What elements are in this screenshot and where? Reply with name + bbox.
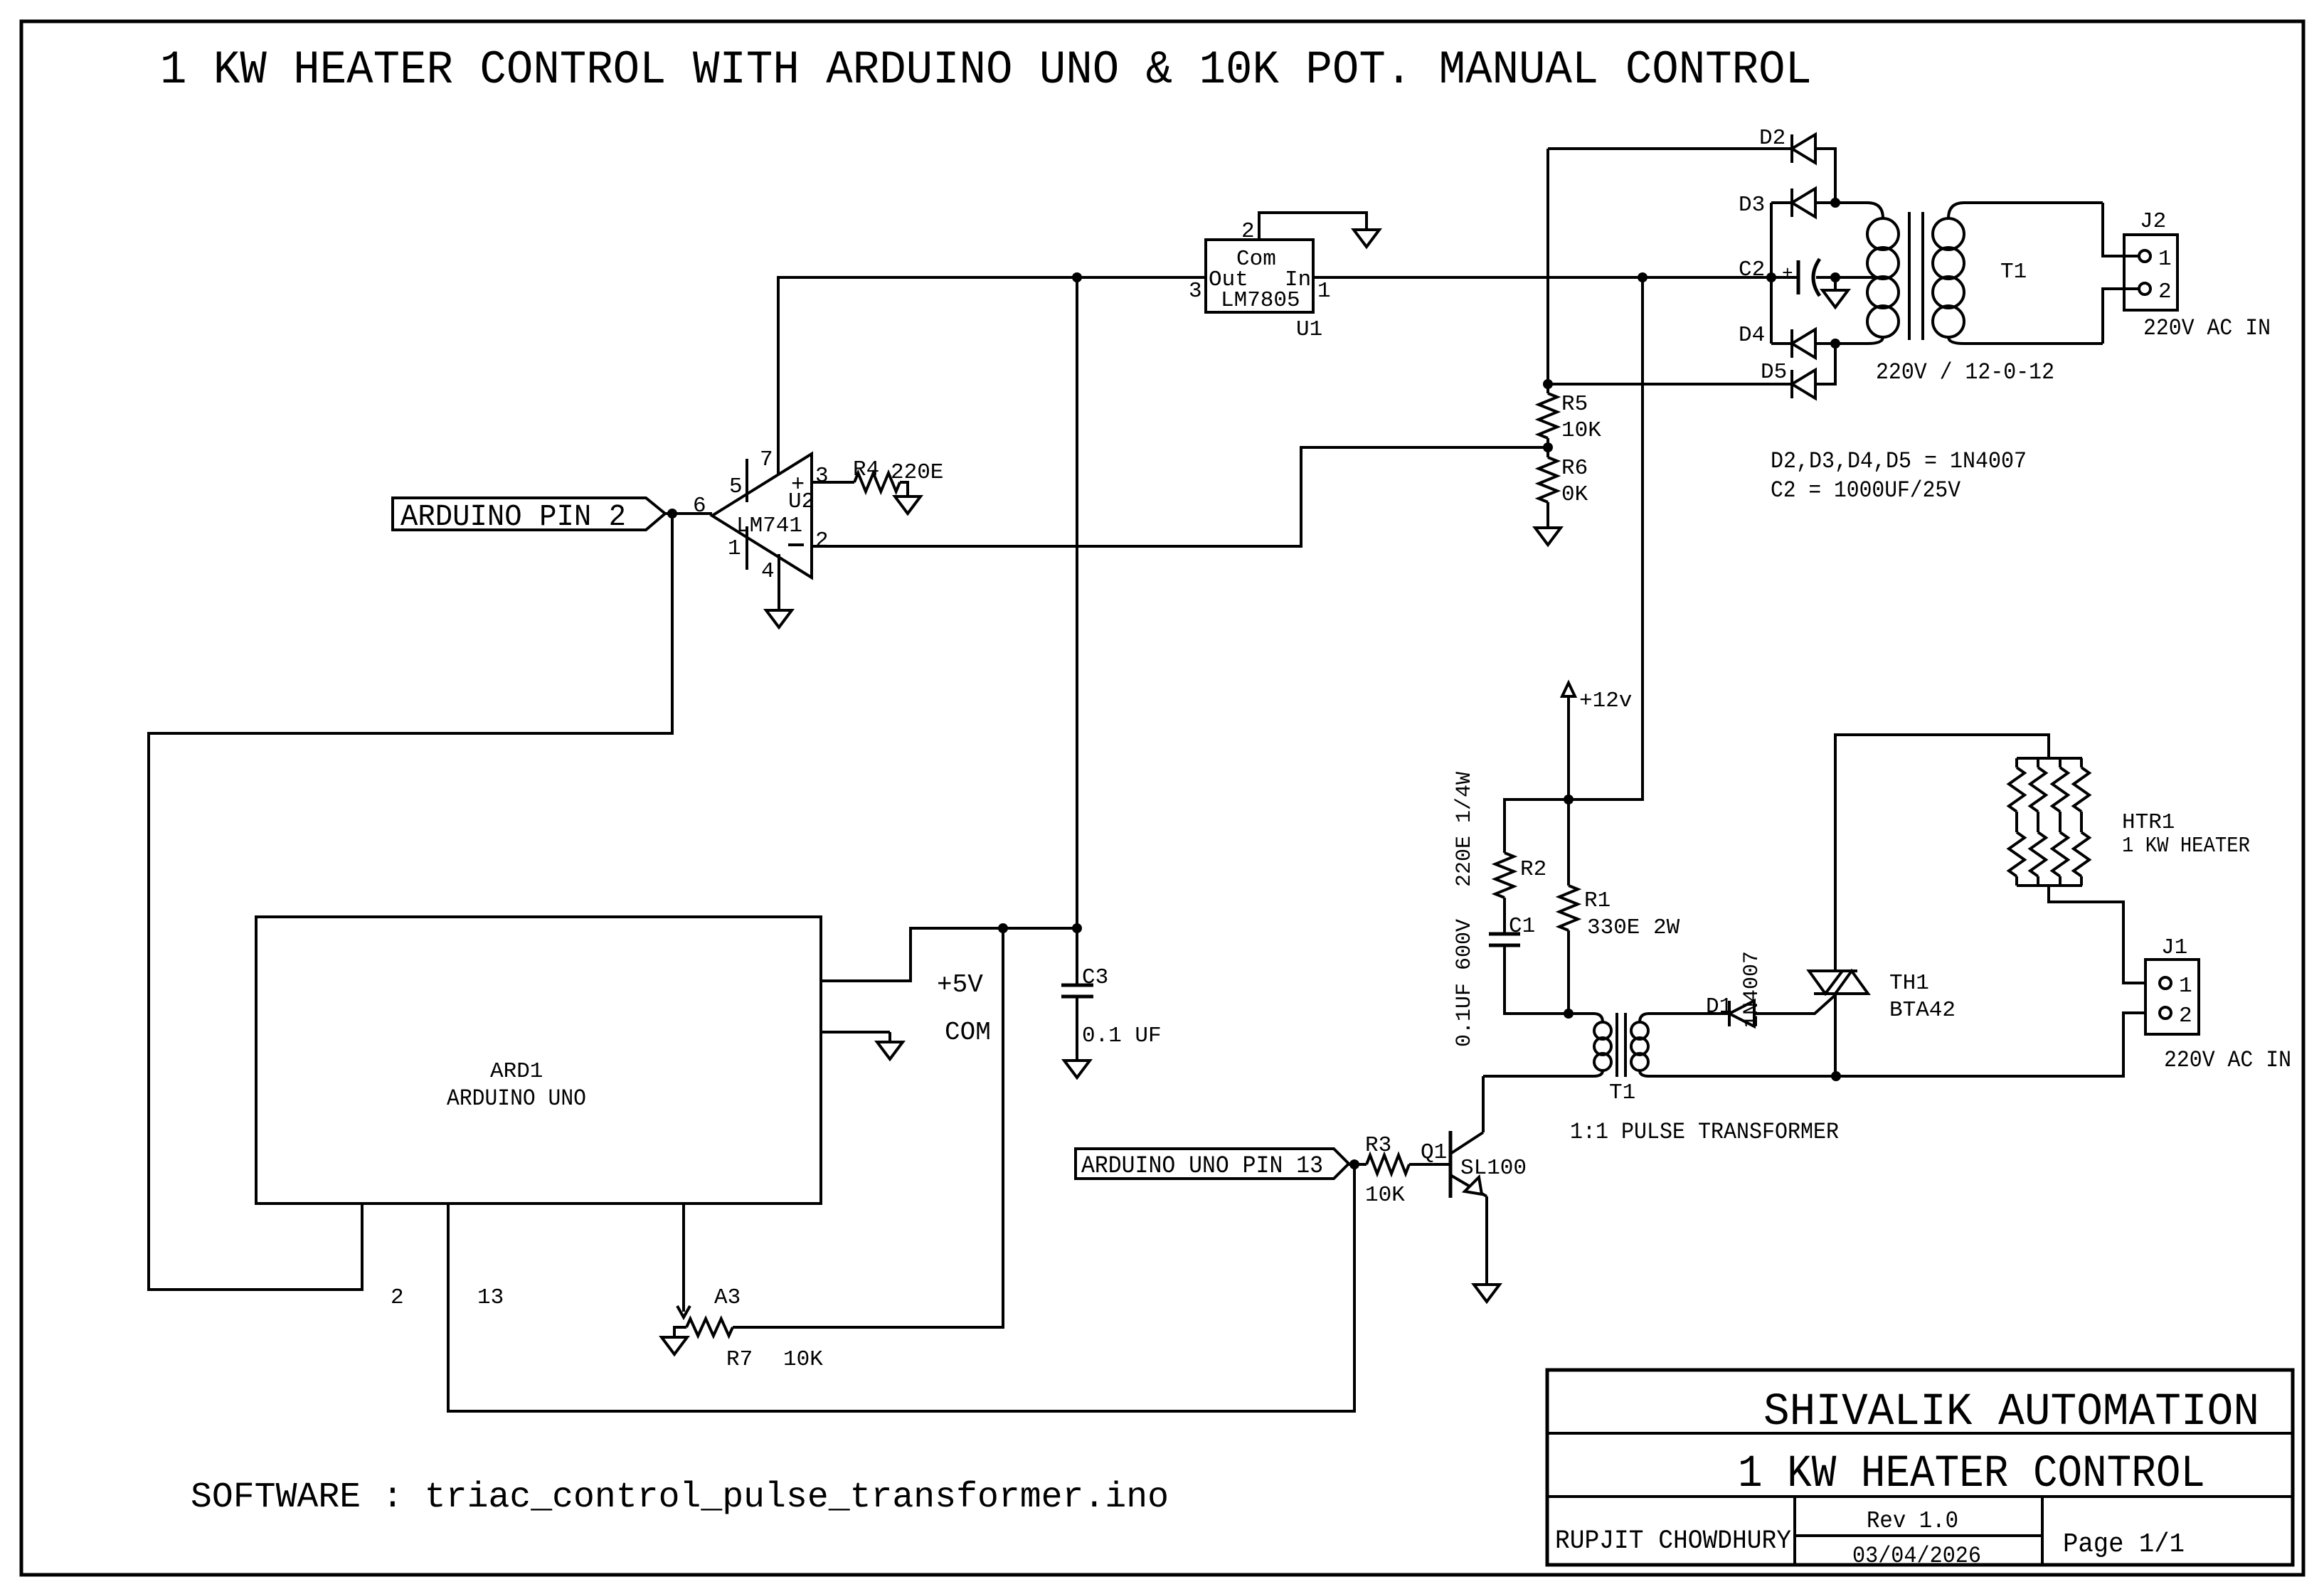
diode D5 xyxy=(1790,370,1793,398)
svg-text:0.1 UF: 0.1 UF xyxy=(1082,1024,1162,1048)
svg-text:C1: C1 xyxy=(1509,914,1535,939)
svg-text:U2: U2 xyxy=(788,489,815,514)
svg-text:2: 2 xyxy=(815,528,829,553)
wire: Arduino pin 13 lead down and across xyxy=(448,1164,1354,1411)
transformer T1 220V/12-0-12 primary winding xyxy=(1835,203,1883,218)
ground at R4 xyxy=(895,496,920,514)
svg-text:TH1: TH1 xyxy=(1889,971,1929,996)
wire: zero-cross sense vertical D2 to R5 xyxy=(1546,149,1549,384)
wire: D1 to triac gate xyxy=(1754,994,1836,1014)
capacitor C3 0.1 UF xyxy=(1076,928,1078,985)
svg-text:10K: 10K xyxy=(1561,418,1601,443)
svg-text:HTR1: HTR1 xyxy=(2122,810,2175,835)
pulse transformer T1 primary xyxy=(1569,1014,1603,1022)
wire: R4 to ground xyxy=(900,482,908,496)
wire: D4 row xyxy=(1771,342,1792,345)
svg-text:R6: R6 xyxy=(1561,456,1588,481)
resistor R3 10K xyxy=(1367,1155,1409,1174)
wire: D3/D4 anode vertical xyxy=(1770,203,1773,344)
svg-text:1 KW HEATER: 1 KW HEATER xyxy=(2122,834,2250,859)
wire: J2 pin1 to transformer secondary top xyxy=(2103,203,2140,256)
capacitor C1 0.1UF 600V xyxy=(1489,933,1520,936)
node: +12v / R1 / R2 junction xyxy=(1564,795,1574,804)
svg-text:0K: 0K xyxy=(1561,482,1588,507)
wire: Arduino COM pin to ground xyxy=(821,1031,890,1034)
transformer T1 core xyxy=(1908,212,1911,340)
potentiometer R7 10K body xyxy=(686,1319,733,1336)
svg-text:D4: D4 xyxy=(1739,323,1765,348)
wire: triac A2 up to heater xyxy=(1835,735,2049,971)
node: D3 cathode / transformer top xyxy=(1830,198,1840,208)
wire: R7 left end to ground xyxy=(674,1327,686,1337)
wire: op-amp pin2 (-) to R5/R6 divider xyxy=(812,447,1548,546)
svg-text:220V AC IN: 220V AC IN xyxy=(2143,315,2271,341)
wire: flag to op-amp pin6 output xyxy=(665,512,712,515)
wire: Arduino pin A3 lead to pot wiper xyxy=(682,1204,685,1312)
svg-text:2: 2 xyxy=(1241,219,1255,244)
wire: D2 anode to D3 node xyxy=(1815,149,1835,203)
node: pin 13 junction xyxy=(1349,1159,1359,1169)
svg-text:+: + xyxy=(1782,263,1793,285)
svg-text:BTA42: BTA42 xyxy=(1889,998,1956,1023)
svg-text:4: 4 xyxy=(761,559,775,584)
resistor R2 220E 1/4W xyxy=(1495,853,1514,898)
J2 pin 1 xyxy=(2139,250,2150,262)
svg-text:ARDUINO PIN 2: ARDUINO PIN 2 xyxy=(400,499,626,534)
svg-text:330E 2W: 330E 2W xyxy=(1587,915,1680,940)
wire: C1 to snubber node xyxy=(1505,945,1569,1014)
wire: op-amp pin4 to ground xyxy=(778,554,780,610)
diode D4 xyxy=(1790,329,1793,358)
op-amp U2 LM741 xyxy=(712,454,812,578)
ground at R6 xyxy=(1535,528,1561,545)
svg-text:3: 3 xyxy=(1189,279,1202,304)
ground at C3 xyxy=(1064,1061,1090,1078)
svg-text:2: 2 xyxy=(391,1285,404,1310)
node: C2 ground junction xyxy=(1830,272,1840,282)
svg-text:C3: C3 xyxy=(1082,965,1108,990)
wire: +12V branch from main rail down to R1/R2 node xyxy=(1569,277,1643,799)
svg-text:1:1 PULSE TRANSFORMER: 1:1 PULSE TRANSFORMER xyxy=(1570,1119,1839,1145)
voltage regulator U1 LM7805 xyxy=(1206,240,1313,312)
node: +12V branch junction xyxy=(1638,272,1648,282)
net flag ARDUINO PIN 2 xyxy=(393,498,665,530)
wire: R2 to C1 xyxy=(1503,898,1506,934)
svg-text:SOFTWARE : triac_control_pulse: SOFTWARE : triac_control_pulse_transform… xyxy=(191,1477,1169,1518)
wire: op-amp pin3 (+) to R4 xyxy=(812,481,854,484)
svg-text:2: 2 xyxy=(2179,1004,2192,1029)
svg-text:7: 7 xyxy=(760,447,773,472)
svg-text:R2: R2 xyxy=(1520,857,1546,882)
svg-text:ARD1: ARD1 xyxy=(490,1059,543,1084)
svg-text:Page 1/1: Page 1/1 xyxy=(2063,1529,2185,1560)
transistor Q1 SL100 xyxy=(1449,1131,1453,1198)
svg-text:U1: U1 xyxy=(1296,317,1322,342)
svg-text:LM741: LM741 xyxy=(736,514,802,538)
svg-text:D3: D3 xyxy=(1739,193,1765,218)
wire: LM7805 pin2 Com to ground xyxy=(1259,213,1367,240)
svg-text:+5V: +5V xyxy=(937,970,983,999)
node: mains line junction xyxy=(1831,1071,1841,1081)
svg-text:1N4007: 1N4007 xyxy=(1740,951,1764,1028)
svg-text:J2: J2 xyxy=(2140,209,2166,234)
diode D2 xyxy=(1790,134,1793,163)
wire: Arduino +5V pin to +5V rail xyxy=(821,928,1077,981)
wire: mains node to J1 pin2 xyxy=(1836,1013,2160,1076)
Arduino Uno ARD1 box xyxy=(256,917,821,1204)
connector J2 xyxy=(2124,235,2177,310)
wire: Q1 emitter to ground xyxy=(1485,1196,1488,1285)
svg-text:5: 5 xyxy=(729,474,743,499)
svg-text:D2,D3,D4,D5 = 1N4007: D2,D3,D4,D5 = 1N4007 xyxy=(1771,448,2027,474)
wire: D2 cathode row xyxy=(1548,147,1792,150)
svg-text:2: 2 xyxy=(2158,280,2172,304)
svg-text:R7: R7 xyxy=(726,1347,753,1372)
node: D4 cathode / transformer bottom xyxy=(1830,339,1840,349)
svg-text:1: 1 xyxy=(1317,279,1331,304)
svg-text:Q1: Q1 xyxy=(1421,1140,1447,1165)
pulse transformer secondary xyxy=(1640,1014,1729,1022)
svg-text:A3: A3 xyxy=(714,1285,741,1310)
svg-text:220E 1/4W: 220E 1/4W xyxy=(1453,772,1477,887)
resistor R4 220E xyxy=(854,473,900,492)
transformer T1 secondary winding xyxy=(1948,203,2103,218)
svg-text:D1: D1 xyxy=(1706,994,1732,1019)
node: junction at D3/D4 vertical xyxy=(1766,272,1776,282)
node: pulse transformer primary top xyxy=(1564,1009,1574,1019)
svg-text:SHIVALIK AUTOMATION: SHIVALIK AUTOMATION xyxy=(1763,1387,2259,1438)
wire: R3 to Q1 base xyxy=(1409,1163,1450,1166)
svg-text:10K: 10K xyxy=(783,1347,823,1372)
+12v power arrow xyxy=(1562,683,1575,696)
resistor R1 330E 2W xyxy=(1567,799,1570,886)
svg-text:1 KW HEATER CONTROL: 1 KW HEATER CONTROL xyxy=(1738,1449,2205,1500)
svg-text:3: 3 xyxy=(815,464,829,489)
connector J1 xyxy=(2145,960,2199,1034)
svg-text:ARDUINO UNO PIN 13: ARDUINO UNO PIN 13 xyxy=(1081,1153,1323,1180)
wire: heater bottom to J1 pin1 xyxy=(2049,886,2160,983)
wire: node to R2 xyxy=(1505,799,1569,853)
diode D1 1N4007 xyxy=(1728,1001,1731,1026)
ground at Q1 emitter xyxy=(1474,1285,1500,1302)
ground at COM xyxy=(877,1042,903,1059)
svg-text:1: 1 xyxy=(728,536,741,561)
svg-text:R1: R1 xyxy=(1584,888,1611,913)
svg-text:SL100: SL100 xyxy=(1460,1156,1527,1181)
svg-text:COM: COM xyxy=(945,1018,991,1047)
svg-text:220V AC IN: 220V AC IN xyxy=(2164,1047,2291,1073)
wire: junction to R3 xyxy=(1349,1163,1367,1166)
J1 pin 2 xyxy=(2160,1007,2171,1019)
svg-text:R5: R5 xyxy=(1561,392,1588,417)
svg-text:RUPJIT CHOWDHURY: RUPJIT CHOWDHURY xyxy=(1555,1526,1791,1556)
svg-text:Rev 1.0: Rev 1.0 xyxy=(1867,1508,1958,1534)
svg-text:0.1UF 600V: 0.1UF 600V xyxy=(1453,919,1477,1047)
node: +5V rail / pot feed xyxy=(998,923,1008,933)
svg-text:C2: C2 xyxy=(1739,257,1765,282)
svg-text:1: 1 xyxy=(2179,974,2192,999)
svg-text:10K: 10K xyxy=(1365,1183,1405,1208)
node: R5 top junction xyxy=(1543,379,1553,389)
node: +5V junction at LM7805 output xyxy=(1072,272,1082,282)
wire: Q1 collector to pulse transformer xyxy=(1482,1076,1485,1132)
svg-text:J1: J1 xyxy=(2161,935,2187,960)
ground at LM7805 Com xyxy=(1354,230,1379,247)
ground at C2 / centre tap xyxy=(1834,277,1837,290)
node: op-amp output junction xyxy=(667,509,677,519)
potentiometer R7 10K wiper arrow xyxy=(677,1306,690,1317)
ground at R7 xyxy=(662,1337,687,1354)
capacitor C2 (polarized 1000UF/25V) xyxy=(1797,260,1800,294)
title block xyxy=(1547,1370,2293,1565)
svg-text:D5: D5 xyxy=(1761,360,1787,385)
wire: D3 row xyxy=(1771,201,1792,204)
svg-text:1 KW HEATER CONTROL WITH ARDUI: 1 KW HEATER CONTROL WITH ARDUINO UNO & 1… xyxy=(160,43,1812,97)
wire: Arduino pin 2 lead xyxy=(361,1204,364,1290)
triac TH1 BTA42 xyxy=(1809,969,1857,972)
wire: +5V riser down to Arduino +5V rail xyxy=(1076,277,1078,928)
svg-text:220V / 12-0-12: 220V / 12-0-12 xyxy=(1876,359,2054,386)
wire: +5V output rail from LM7805 Out to op-amp pin7 riser xyxy=(778,277,1206,474)
svg-text:+12v: +12v xyxy=(1579,689,1632,713)
wire: op-amp output down and around to Arduino pin 2 xyxy=(149,514,672,1290)
resistor R5 10K xyxy=(1539,393,1557,438)
wire: J2 pin2 to transformer secondary bottom xyxy=(2103,289,2140,344)
resistor R6 0K xyxy=(1539,457,1557,502)
J2 pin 2 xyxy=(2139,283,2150,294)
heater HTR1 1KW (4 parallel elements) xyxy=(2017,757,2082,760)
ground at op-amp pin 4 xyxy=(766,610,792,627)
wire: C2 to transformer centre tap xyxy=(1816,276,1878,279)
svg-text:03/04/2026: 03/04/2026 xyxy=(1852,1543,1981,1569)
net flag ARDUINO UNO PIN 13 xyxy=(1076,1149,1349,1179)
svg-text:T1: T1 xyxy=(2000,260,2027,285)
svg-text:LM7805: LM7805 xyxy=(1221,288,1300,313)
wire: unregulated +12V from LM7805 In to C2 xyxy=(1313,276,1798,279)
svg-text:ARDUINO UNO: ARDUINO UNO xyxy=(447,1085,586,1112)
J1 pin 1 xyxy=(2160,977,2171,989)
pulse transformer core xyxy=(1615,1013,1618,1077)
svg-text:D2: D2 xyxy=(1759,126,1786,151)
node: R5/R6 divider junction xyxy=(1543,442,1553,452)
diode D3 xyxy=(1790,188,1793,217)
svg-text:C2 = 1000UF/25V: C2 = 1000UF/25V xyxy=(1771,477,1961,504)
svg-text:R4: R4 xyxy=(853,457,879,482)
svg-text:13: 13 xyxy=(477,1285,504,1310)
wire: triac A1 down to mains node xyxy=(1834,994,1837,1076)
svg-text:1: 1 xyxy=(2158,247,2172,272)
wire: D5 row to R5 top xyxy=(1548,383,1792,386)
wire: D5 anode up to D4 node xyxy=(1815,344,1835,384)
svg-text:220E: 220E xyxy=(891,460,943,485)
node: +5V rail / C3 xyxy=(1072,923,1082,933)
svg-text:R3: R3 xyxy=(1365,1133,1391,1158)
svg-text:T1: T1 xyxy=(1609,1080,1635,1105)
wire: R7 right end to +5V rail xyxy=(733,928,1003,1327)
